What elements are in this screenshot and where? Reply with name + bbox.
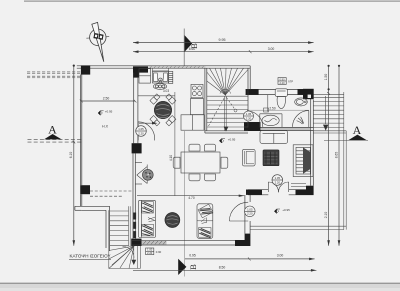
section marker B top triangle xyxy=(185,35,193,52)
svg-text:1.00: 1.00 xyxy=(147,248,153,252)
svg-text:+0.95: +0.95 xyxy=(228,138,236,142)
svg-text:4.10: 4.10 xyxy=(169,155,173,161)
bottom dimension line 2 xyxy=(133,269,316,271)
svg-text:0.90: 0.90 xyxy=(156,250,162,254)
wall living bottom xyxy=(131,239,248,241)
kitchen circle label xyxy=(136,126,147,137)
plant circle xyxy=(142,169,153,180)
bathroom circle label xyxy=(244,111,254,121)
wall kitchen left xyxy=(133,73,135,144)
sofa fold marks xyxy=(201,218,207,224)
sink unit xyxy=(152,72,168,83)
wall top (H.X + kitchen + stair) xyxy=(77,65,250,67)
external stair bottom-left winders xyxy=(109,246,134,251)
wall left H.X xyxy=(80,75,82,186)
svg-text:2.20: 2.20 xyxy=(147,251,153,255)
column C6 bottom black xyxy=(235,240,248,246)
interior dimension line living room xyxy=(137,195,244,197)
svg-text:8.50: 8.50 xyxy=(219,265,226,269)
kitchen door arc xyxy=(138,122,154,141)
bathroom label box xyxy=(278,78,286,85)
dashed lines top-left xyxy=(27,71,81,73)
interior vertical dimension line xyxy=(174,92,176,196)
north arrow center boxes xyxy=(93,33,103,40)
column C1 xyxy=(81,65,90,74)
sofa west wall xyxy=(138,200,155,237)
H.X bottom corner wall xyxy=(75,205,110,207)
dining chair left xyxy=(173,157,180,168)
svg-text:4.70: 4.70 xyxy=(188,196,194,200)
wc bowl xyxy=(277,96,285,108)
oval platter xyxy=(153,83,166,89)
section A right triangle xyxy=(349,135,367,140)
level marker living xyxy=(219,139,223,143)
svg-text:+0.95: +0.95 xyxy=(105,110,113,114)
double door left leaf xyxy=(267,182,269,192)
bathroom top wall black left xyxy=(246,89,259,95)
fridge xyxy=(139,69,151,84)
main stair treads xyxy=(207,95,248,97)
basin right xyxy=(295,98,308,106)
stair down arrow xyxy=(133,247,135,262)
wc cistern xyxy=(275,89,287,97)
drying rack xyxy=(169,71,173,83)
external stair top-right treads xyxy=(314,94,345,96)
partition line xyxy=(267,95,269,112)
column C7 porch corner xyxy=(306,186,314,195)
dining chair right xyxy=(221,157,228,168)
sofa cushion upper xyxy=(142,202,154,213)
svg-text:0.90: 0.90 xyxy=(279,77,285,81)
scan edge top xyxy=(24,0,400,2)
sofa pillow top (tilted) xyxy=(198,204,213,218)
double door right leaf xyxy=(288,182,290,192)
bathroom top wall xyxy=(246,88,311,90)
porch wall black left xyxy=(246,190,262,195)
svg-text:ΛΤΡ: ΛΤΡ xyxy=(288,80,293,84)
paper holder box xyxy=(264,108,269,112)
column C2 kitchen top xyxy=(133,66,148,77)
dimension 2.50 bathroom xyxy=(247,109,309,111)
bathroom door arc left xyxy=(247,111,263,127)
main stair direction dashed xyxy=(209,98,225,127)
north arrow circle xyxy=(90,29,106,45)
rug dark speckled xyxy=(263,150,279,166)
svg-text:3.00: 3.00 xyxy=(268,47,275,51)
main stair winder arc xyxy=(220,89,231,93)
svg-text:2.20: 2.20 xyxy=(279,81,285,85)
cooktop xyxy=(191,84,203,97)
terrace edge bottom xyxy=(250,225,346,227)
level marker porch xyxy=(274,209,278,213)
porch left wall black xyxy=(245,234,251,246)
external stair bottom-left treads xyxy=(110,210,129,212)
svg-text:2.20: 2.20 xyxy=(246,116,252,120)
sofa cushion lower xyxy=(142,224,154,236)
sofa three-seat xyxy=(197,204,213,239)
section A left triangle xyxy=(44,134,62,139)
kitchen counter xyxy=(190,99,203,115)
wall porch left xyxy=(244,195,246,234)
armchair xyxy=(242,149,255,166)
column C5 living bottom-left xyxy=(131,239,141,246)
svg-text:6.60: 6.60 xyxy=(189,47,196,51)
svg-text:ΚΑΤΟΨΗ ΙΣΟΓΕΙΟΥ: ΚΑΤΟΨΗ ΙΣΟΓΕΙΟΥ xyxy=(70,254,111,259)
bathroom bottom wall xyxy=(261,128,310,130)
wall porch top (double-door wall) xyxy=(248,189,268,191)
svg-text:6.10: 6.10 xyxy=(69,152,73,159)
sofa pillow bottom xyxy=(199,228,211,238)
svg-text:9.95: 9.95 xyxy=(219,38,226,42)
kitchen arrow dim xyxy=(139,122,157,124)
svg-text:A: A xyxy=(353,123,362,137)
dining chairs bottom xyxy=(189,174,200,181)
fireplace shelf xyxy=(293,145,313,177)
sink counter top xyxy=(151,68,153,72)
porch wall black right xyxy=(296,190,307,195)
svg-text:+0.95: +0.95 xyxy=(282,208,290,212)
table chairs xyxy=(150,94,176,126)
north arrow needle xyxy=(92,22,104,61)
main stair winder fan xyxy=(207,72,226,95)
sofa throw middle xyxy=(148,217,155,221)
column C4 living left top xyxy=(132,143,142,153)
terrace edge right xyxy=(343,131,345,230)
porch circle label xyxy=(272,175,283,186)
scan edge bottom band xyxy=(0,283,400,284)
stair wall window dashes xyxy=(133,213,136,220)
dashed overhead line H.X xyxy=(90,190,133,192)
dimension 2.50 in H.X xyxy=(81,100,135,102)
svg-text:B: B xyxy=(188,264,198,270)
plant corner xyxy=(297,117,304,124)
svg-text:0.95: 0.95 xyxy=(189,254,196,258)
section A right line xyxy=(324,140,368,142)
wall living left xyxy=(132,153,134,238)
external stair arrow xyxy=(325,96,327,124)
right dimension line 2 xyxy=(338,66,340,246)
svg-text:Η.Χ: Η.Χ xyxy=(102,124,109,128)
section line B vertical xyxy=(183,29,185,67)
dining chairs top xyxy=(189,144,200,151)
svg-text:2.50: 2.50 xyxy=(103,96,110,100)
entry circle label xyxy=(245,206,256,217)
entry door arc xyxy=(229,202,248,221)
top dimension line 2 xyxy=(133,51,314,53)
coffee table round xyxy=(165,213,180,228)
top dimension line 1 xyxy=(133,42,314,44)
svg-text:8.65: 8.65 xyxy=(334,152,338,159)
svg-text:2.20: 2.20 xyxy=(247,212,253,216)
porch steps xyxy=(291,183,306,185)
bathroom top wall black right xyxy=(298,89,304,95)
winder arc xyxy=(123,246,135,257)
column C8 left wall xyxy=(80,185,90,194)
svg-text:2.10: 2.10 xyxy=(324,212,328,219)
svg-text:3.00: 3.00 xyxy=(277,254,284,258)
basin counter bottom xyxy=(260,113,282,115)
bottom dimension line 1 xyxy=(185,258,315,260)
kitchen dim line 3.03 xyxy=(138,95,175,97)
external stair landing xyxy=(314,130,347,132)
svg-text:3.03: 3.03 xyxy=(163,89,169,93)
section A left dashed line xyxy=(28,139,83,141)
round table xyxy=(154,101,171,118)
plant cone xyxy=(137,167,147,184)
section marker B bottom triangle xyxy=(178,259,186,275)
stair left wall xyxy=(204,68,206,133)
wall plant niche xyxy=(136,162,143,164)
external stair bottom-left winder box xyxy=(108,210,110,268)
wall right (living) xyxy=(310,95,312,186)
window label box bottom xyxy=(146,248,154,255)
title text xyxy=(69,254,111,260)
svg-text:1.50: 1.50 xyxy=(324,74,328,81)
stair / corridor bottom line xyxy=(205,130,248,132)
main stair central stringer xyxy=(224,96,226,131)
bathroom bottom wall black xyxy=(244,122,261,131)
stair right wall xyxy=(247,68,249,127)
column C3 bathroom corner xyxy=(303,89,314,99)
svg-text:2.20: 2.20 xyxy=(275,180,281,184)
external stair bottom-left rail xyxy=(128,206,130,246)
dining table xyxy=(181,152,220,173)
left dimension line xyxy=(73,65,75,246)
level marker H.X xyxy=(98,111,102,115)
window hatch bottom xyxy=(142,241,167,245)
basin bottom oval xyxy=(262,115,279,125)
bathroom door arc right xyxy=(293,111,309,127)
svg-text:2.50: 2.50 xyxy=(269,107,275,111)
bench sofa top xyxy=(260,131,288,144)
right dimension line 1 xyxy=(328,66,330,246)
svg-text:2.20: 2.20 xyxy=(138,131,144,135)
